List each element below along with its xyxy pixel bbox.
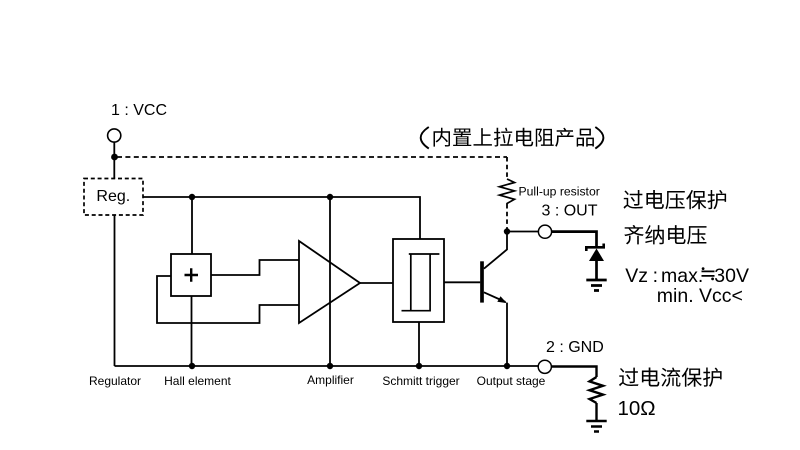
protection: wire GND to 10ohm resistor (thick) bbox=[552, 367, 597, 378]
wire schmitt bottom drop bbox=[418, 322, 420, 366]
transistor collector bbox=[484, 232, 507, 269]
svg-text::: : bbox=[653, 265, 658, 287]
wire hall left to amplifier lower input bbox=[157, 276, 299, 323]
svg-text:Hall element: Hall element bbox=[164, 374, 231, 388]
note zener voltage CJK bbox=[624, 225, 706, 244]
svg-text:min. Vcc<: min. Vcc< bbox=[657, 285, 743, 307]
resistor 10 ohm zigzag bbox=[590, 377, 604, 403]
wire top supply rail bbox=[143, 197, 420, 239]
paren right of built-in note bbox=[595, 127, 603, 149]
wire VCC vertical into regulator bbox=[113, 142, 115, 178]
hall element plus sign bbox=[185, 268, 199, 282]
node junction amplifier bottom bbox=[327, 363, 333, 369]
ground symbol below zener bbox=[586, 280, 606, 291]
wire amplifier power vertical bbox=[329, 197, 331, 366]
wire hall element bottom drop bbox=[191, 296, 193, 366]
svg-text:3 : OUT: 3 : OUT bbox=[542, 203, 598, 220]
node junction hall bottom bbox=[189, 363, 195, 369]
svg-text:2 : GND: 2 : GND bbox=[546, 339, 604, 356]
resistor pull-up zigzag bbox=[500, 179, 515, 204]
transistor emitter bbox=[484, 292, 507, 366]
wire OUT junction to pin 3 bbox=[507, 231, 538, 233]
note overcurrent protection CJK bbox=[619, 368, 722, 387]
schmitt trigger hysteresis symbol bbox=[402, 254, 440, 311]
approx-equal symbol in Vz line bbox=[702, 271, 715, 276]
svg-text:Vz: Vz bbox=[625, 265, 648, 287]
wire amplifier output bbox=[360, 282, 393, 284]
terminal pin 2 GND circle bbox=[538, 360, 551, 373]
node junction output stage bottom bbox=[504, 363, 510, 369]
svg-text:Amplifier: Amplifier bbox=[307, 373, 354, 387]
wire hall right to amplifier upper input bbox=[211, 260, 299, 275]
wire dashed pull-up supply horizontal bbox=[117, 156, 507, 158]
svg-text:Regulator: Regulator bbox=[89, 374, 141, 388]
svg-text:Output stage: Output stage bbox=[477, 374, 546, 388]
hall element box bbox=[171, 254, 211, 296]
svg-text:Schmitt trigger: Schmitt trigger bbox=[382, 374, 459, 388]
node junction at OUT bbox=[504, 228, 510, 234]
svg-text:max.: max. bbox=[661, 265, 703, 287]
svg-text:Pull-up resistor: Pull-up resistor bbox=[519, 185, 600, 199]
note overvoltage protection CJK bbox=[624, 190, 727, 209]
zener diode anode triangle bbox=[589, 249, 604, 262]
wire dashed below pull-up resistor bbox=[506, 204, 508, 229]
node junction rail to hall bbox=[189, 194, 195, 200]
zener diode cathode bar bbox=[586, 244, 603, 252]
resistor lead to ground bbox=[595, 403, 597, 421]
transistor emitter arrowhead bbox=[497, 296, 507, 303]
op-amp amplifier triangle bbox=[299, 241, 360, 323]
terminal pin 3 OUT circle bbox=[538, 225, 551, 238]
wire schmitt output to transistor base bbox=[444, 281, 480, 283]
node junction rail to amplifier bbox=[327, 194, 333, 200]
schmitt trigger box bbox=[393, 239, 444, 322]
node junction schmitt bottom bbox=[416, 363, 422, 369]
paren left of built-in note bbox=[421, 127, 429, 149]
wire bottom ground rail bbox=[115, 365, 539, 367]
transistor Q1 base bar bbox=[480, 261, 484, 302]
zener diode lead to ground bbox=[595, 259, 598, 280]
wire dashed vertical to pull-up resistor bbox=[506, 157, 508, 179]
svg-text:Reg.: Reg. bbox=[96, 188, 130, 205]
wire regulator bottom drop bbox=[114, 215, 116, 366]
protection: wire OUT to zener (thick) bbox=[552, 232, 597, 248]
terminal pin 1 VCC circle bbox=[108, 129, 121, 142]
svg-text:30V: 30V bbox=[714, 265, 749, 287]
wire hall element top drop bbox=[191, 197, 193, 254]
node junction on VCC wire bbox=[111, 154, 118, 161]
regulator Reg. dashed box bbox=[84, 179, 143, 216]
svg-text:1 : VCC: 1 : VCC bbox=[111, 102, 167, 119]
ground symbol below resistor bbox=[586, 421, 606, 432]
svg-text:10Ω: 10Ω bbox=[618, 397, 656, 420]
note built-in pull-up CJK text bbox=[434, 128, 594, 147]
